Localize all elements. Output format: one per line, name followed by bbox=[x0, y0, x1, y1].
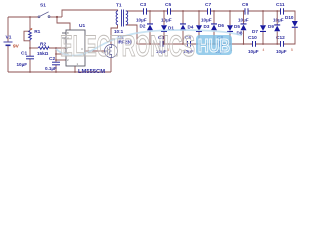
svg-text:C9: C9 bbox=[242, 2, 248, 8]
wire switch to dot bbox=[50, 16, 62, 18]
wire R1 top drop bbox=[29, 17, 31, 31]
junction C2-ground bbox=[55, 71, 57, 73]
wire R2 to pin bbox=[49, 47, 66, 49]
svg-text:10µF: 10µF bbox=[273, 18, 284, 23]
diode D5 bbox=[229, 11, 231, 44]
wire pin stub 2 bbox=[56, 59, 66, 61]
svg-text:C10: C10 bbox=[248, 35, 257, 41]
wire ground rail bbox=[8, 71, 111, 73]
svg-text:D9: D9 bbox=[268, 24, 274, 29]
svg-text:15kΩ: 15kΩ bbox=[37, 51, 49, 56]
switch S1 bbox=[38, 12, 50, 18]
svg-text:D7: D7 bbox=[252, 29, 258, 34]
capacitor C8 bbox=[220, 41, 223, 47]
junction pin6 node bbox=[55, 53, 57, 55]
capacitor C9 bbox=[245, 8, 248, 14]
wire bottom rail seg1 bbox=[137, 43, 160, 45]
wire C2 to ground bbox=[55, 65, 57, 72]
wire vcc drop to IC bbox=[57, 17, 70, 30]
svg-text:10µF: 10µF bbox=[17, 62, 28, 67]
capacitor C5 bbox=[168, 8, 171, 14]
svg-text:U1: U1 bbox=[79, 23, 85, 29]
battery V1 bbox=[4, 42, 13, 45]
wire battery bottom bbox=[7, 46, 9, 73]
junction pin2 node bbox=[55, 59, 57, 61]
wire bottom rail seg6 bbox=[284, 28, 295, 44]
svg-text:C2: C2 bbox=[49, 56, 55, 62]
junction D4 bottom node bbox=[182, 43, 184, 45]
junction C1-ground bbox=[29, 71, 31, 73]
capacitor C2 bbox=[52, 62, 60, 65]
wire drain to transformer bbox=[111, 25, 118, 44]
wire top rail seg2 bbox=[147, 10, 167, 12]
svg-text:V1: V1 bbox=[6, 35, 12, 41]
junction IC-ground bbox=[74, 71, 76, 73]
junction D1 bottom node bbox=[163, 43, 165, 45]
junction D9 bottom node bbox=[276, 43, 278, 45]
junction D7 top node bbox=[243, 10, 245, 12]
svg-text:10µF: 10µF bbox=[201, 18, 212, 23]
svg-text:C1: C1 bbox=[21, 51, 27, 57]
wire node to C1 bbox=[29, 48, 31, 56]
capacitor C11 bbox=[281, 8, 284, 14]
junction D2 bottom node bbox=[149, 43, 151, 45]
svg-text:10µF: 10µF bbox=[136, 18, 147, 23]
diode D10 bbox=[292, 21, 298, 28]
svg-text:4: 4 bbox=[263, 48, 265, 52]
junction D5 top node bbox=[229, 10, 231, 12]
resistor R2 bbox=[38, 47, 49, 50]
wire out pin to gate bbox=[85, 50, 104, 52]
wire bottom rail seg3 bbox=[191, 43, 219, 45]
diode D7 bbox=[243, 11, 245, 44]
wire top rail left bbox=[8, 16, 38, 18]
diode D9 bbox=[276, 11, 278, 44]
wire secondary bottom to rail bbox=[126, 25, 137, 44]
svg-text:ELECTRONICS: ELECTRONICS bbox=[60, 30, 195, 63]
transformer T1 bbox=[116, 10, 128, 27]
wire secondary top rail seg1 bbox=[126, 10, 143, 12]
junction D8 top node bbox=[262, 10, 264, 12]
resistor R1 bbox=[29, 31, 32, 41]
wire C1 to ground bbox=[29, 59, 31, 72]
junction pin7 node bbox=[55, 47, 57, 49]
pin stub 4 bbox=[62, 37, 66, 39]
junction D9 top node bbox=[276, 10, 278, 12]
wire bottom rail seg2 bbox=[164, 43, 188, 45]
junction D7 bottom node bbox=[243, 43, 245, 45]
svg-text:10µF: 10µF bbox=[161, 18, 172, 23]
wire R1 bypass loop bbox=[24, 31, 30, 41]
wire top rail seg5 bbox=[249, 10, 281, 12]
svg-text:LM555CM: LM555CM bbox=[78, 69, 105, 75]
junction D8 bottom node bbox=[262, 43, 264, 45]
wire pins tie vertical bbox=[55, 48, 57, 62]
wire bottom rail seg5 bbox=[256, 43, 280, 45]
svg-text:D5: D5 bbox=[234, 24, 240, 29]
junction R1-rail bbox=[29, 16, 31, 18]
svg-text:D10: D10 bbox=[285, 15, 294, 20]
capacitor C4 bbox=[160, 41, 163, 47]
junction D6 top node bbox=[213, 10, 215, 12]
capacitor C1 bbox=[26, 56, 34, 59]
junction D6 bottom node bbox=[213, 43, 215, 45]
wire bottom rail seg4 bbox=[223, 43, 252, 45]
svg-text:S1: S1 bbox=[40, 3, 46, 9]
watermark ELECTRONICS HUB bbox=[56, 30, 242, 63]
transistor Q1 MOSFET bbox=[104, 44, 117, 57]
svg-text:9V: 9V bbox=[13, 44, 20, 50]
svg-text:T1: T1 bbox=[116, 3, 122, 9]
svg-text:C7: C7 bbox=[205, 2, 211, 8]
capacitor C7 bbox=[208, 8, 211, 14]
capacitor C6 bbox=[188, 41, 191, 47]
svg-text:10µF: 10µF bbox=[248, 49, 259, 54]
svg-text:C5: C5 bbox=[165, 2, 171, 8]
capacitor C10 bbox=[253, 41, 256, 47]
junction D3 top node bbox=[198, 10, 200, 12]
capacitor C3 bbox=[144, 8, 147, 14]
junction VCC tap bbox=[56, 16, 58, 18]
svg-text:R2: R2 bbox=[40, 42, 46, 48]
wire pin stub 6 bbox=[56, 53, 66, 55]
svg-text:5: 5 bbox=[291, 48, 293, 52]
op-amp U1 555 timer box bbox=[66, 30, 85, 66]
junction D5 bottom node bbox=[229, 43, 231, 45]
svg-text:10µF: 10µF bbox=[276, 49, 287, 54]
wire source to ground bbox=[110, 58, 112, 72]
svg-text:D2: D2 bbox=[140, 24, 146, 29]
svg-text:D6: D6 bbox=[218, 23, 224, 28]
svg-text:C3: C3 bbox=[140, 2, 146, 8]
wire top rail seg6 to corner bbox=[284, 11, 295, 21]
diode D8 bbox=[262, 11, 264, 44]
svg-text:R1: R1 bbox=[34, 29, 40, 35]
diode D3 bbox=[198, 11, 200, 44]
diode D2 bbox=[149, 11, 151, 44]
svg-text:D3: D3 bbox=[204, 24, 210, 29]
wire R1 to node bbox=[29, 41, 31, 49]
wire node to R2 bbox=[30, 47, 38, 49]
wire top rail seg4 bbox=[211, 10, 245, 12]
pin stub 7 bbox=[62, 32, 66, 34]
junction D4 top node bbox=[182, 10, 184, 12]
svg-text:0.1µF: 0.1µF bbox=[45, 66, 57, 71]
diode D1 bbox=[163, 11, 165, 44]
diode D4 bbox=[182, 11, 184, 44]
capacitor C12 bbox=[281, 41, 284, 47]
svg-text:D4: D4 bbox=[188, 25, 194, 30]
junction R1-R2-C1 node bbox=[29, 47, 31, 49]
diode D6 bbox=[213, 11, 215, 44]
svg-text:C11: C11 bbox=[276, 2, 285, 8]
wire battery top bbox=[7, 17, 9, 42]
junction D3 bottom node bbox=[198, 43, 200, 45]
junction D1 top node bbox=[163, 10, 165, 12]
wire rail rise to y10 bbox=[62, 10, 118, 17]
wire IC gnd pin bbox=[74, 66, 76, 72]
junction D2 top node bbox=[149, 10, 151, 12]
svg-text:HUB: HUB bbox=[198, 36, 230, 56]
wire top rail seg3 bbox=[171, 10, 207, 12]
